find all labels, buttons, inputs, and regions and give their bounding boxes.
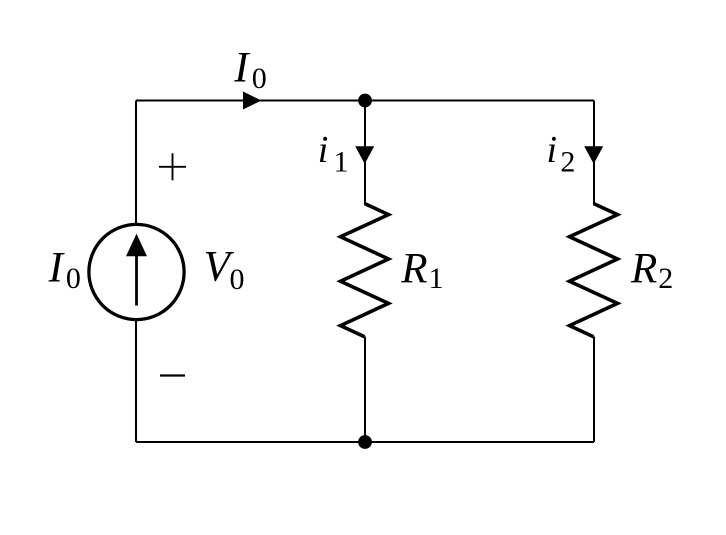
svg-text:i: i (318, 129, 329, 171)
wire: middle branch lower segment (R1 to bottom node) (364, 337, 366, 443)
svg-text:i: i (547, 129, 558, 171)
label i1 (318, 129, 349, 178)
svg-text:0: 0 (66, 262, 81, 295)
label - (negative terminal of V0) (160, 374, 185, 376)
wire: right branch upper segment (top wire to R2) (593, 101, 595, 205)
wire: left branch lower segment (current source to bottom wire) (135, 320, 137, 443)
node: bottom junction (dot) (358, 435, 372, 449)
current source arrow shaft (135, 252, 138, 306)
svg-text:2: 2 (658, 262, 673, 295)
current source I0 (circle) (89, 224, 184, 319)
wire: left branch upper segment (top wire to current source) (135, 101, 137, 225)
current source arrow head (126, 234, 147, 256)
svg-text:1: 1 (334, 145, 349, 178)
svg-text:2: 2 (560, 145, 575, 178)
svg-text:R: R (400, 245, 427, 292)
label R1 (400, 245, 443, 295)
svg-text:I: I (48, 244, 65, 291)
label i2 (547, 129, 576, 178)
label R2 (630, 245, 673, 295)
wire: bottom horizontal from left branch to middle node (136, 441, 365, 443)
arrow i1 (current into R1) (355, 146, 374, 164)
label I0 (233, 44, 266, 95)
svg-text:R: R (630, 245, 657, 292)
arrow I0 on top wire (243, 92, 262, 110)
wire: top horizontal from middle node to right branch (365, 100, 594, 102)
svg-text:0: 0 (252, 62, 267, 95)
svg-text:1: 1 (429, 262, 444, 295)
wire: bottom horizontal from middle node to right branch (365, 441, 594, 443)
label I0 (source value, left of circle) (48, 244, 81, 295)
svg-text:I: I (233, 44, 250, 91)
svg-text:0: 0 (230, 263, 245, 296)
wire: top horizontal from left branch to middle node (136, 100, 365, 102)
resistor R1 (zigzag) (341, 204, 389, 337)
label + (positive terminal of V0) (159, 153, 186, 180)
resistor R2 (zigzag) (570, 204, 618, 337)
node: top junction (dot) (358, 94, 372, 108)
label V0 (voltage across source, right of circle) (204, 243, 245, 296)
wire: middle branch upper segment (node to R1) (364, 101, 366, 205)
wire: right branch lower segment (R2 to bottom wire) (593, 337, 595, 443)
arrow i2 (current into R2) (584, 146, 603, 164)
